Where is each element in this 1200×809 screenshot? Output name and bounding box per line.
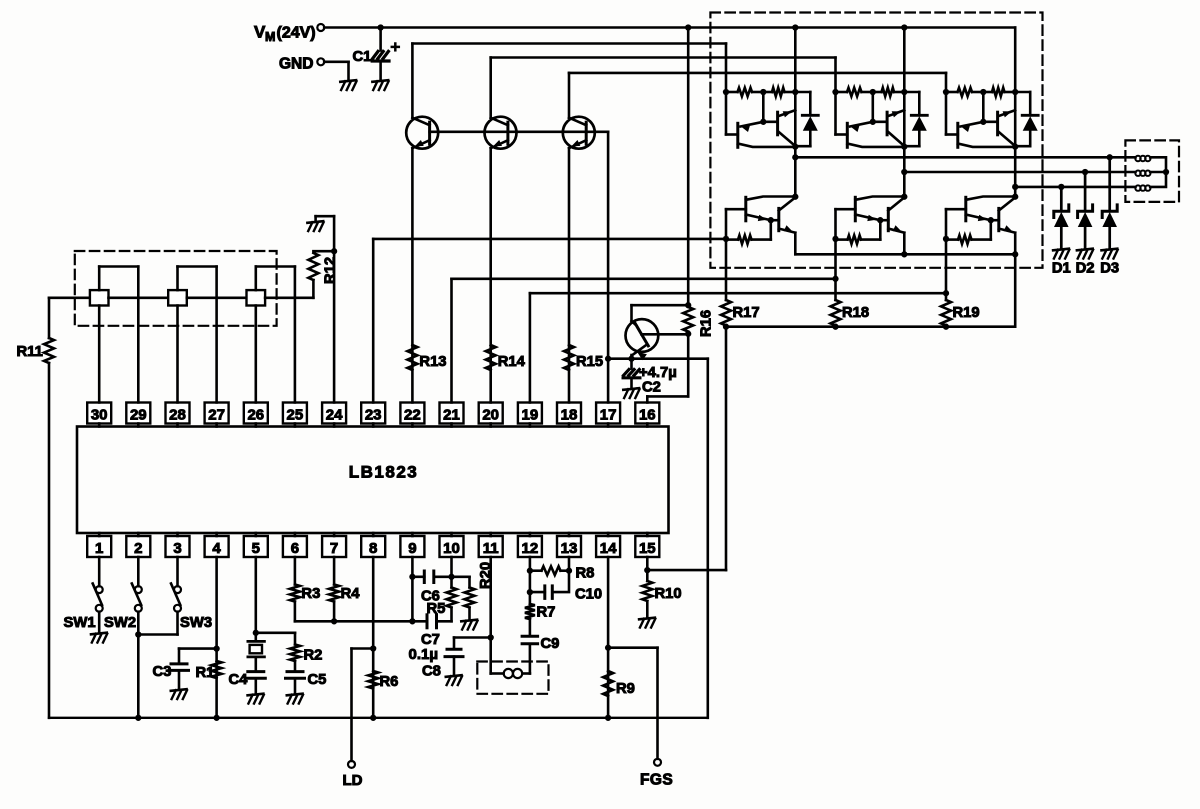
svg-text:C10: C10 — [575, 587, 602, 603]
svg-text:R12: R12 — [323, 257, 339, 284]
svg-text:10: 10 — [443, 540, 460, 557]
svg-text:26: 26 — [247, 406, 264, 423]
svg-text:R11: R11 — [17, 344, 43, 360]
svg-text:13: 13 — [561, 540, 578, 557]
svg-text:5: 5 — [252, 540, 260, 557]
svg-text:R4: R4 — [341, 586, 361, 602]
svg-text:D2: D2 — [1076, 261, 1095, 277]
svg-text:R6: R6 — [380, 674, 399, 690]
svg-text:19: 19 — [522, 406, 539, 423]
svg-text:4: 4 — [212, 540, 221, 557]
svg-text:C1: C1 — [353, 49, 372, 65]
svg-text:12: 12 — [522, 540, 539, 557]
svg-text:R13: R13 — [419, 354, 446, 370]
svg-text:M: M — [265, 30, 275, 44]
svg-text:R2: R2 — [304, 648, 323, 664]
svg-text:25: 25 — [287, 406, 304, 423]
svg-text:20: 20 — [482, 406, 499, 423]
svg-text:(24V): (24V) — [277, 25, 316, 42]
svg-text:R19: R19 — [953, 305, 980, 321]
svg-text:GND: GND — [279, 56, 313, 73]
svg-text:R5: R5 — [427, 601, 446, 617]
svg-text:D3: D3 — [1100, 261, 1119, 277]
svg-text:R7: R7 — [537, 605, 556, 621]
svg-text:R14: R14 — [498, 354, 526, 370]
svg-text:R18: R18 — [842, 305, 869, 321]
svg-text:LB1823: LB1823 — [349, 463, 418, 482]
svg-text:27: 27 — [208, 406, 225, 423]
svg-text:3: 3 — [173, 540, 181, 557]
svg-text:R16: R16 — [699, 310, 715, 337]
svg-text:22: 22 — [404, 406, 421, 423]
svg-text:C4: C4 — [229, 672, 249, 688]
svg-text:24: 24 — [326, 406, 343, 423]
svg-text:C9: C9 — [541, 636, 560, 652]
svg-text:23: 23 — [365, 406, 382, 423]
svg-text:0.1µ: 0.1µ — [409, 646, 439, 663]
svg-text:SW2: SW2 — [104, 615, 136, 631]
svg-text:30: 30 — [91, 406, 108, 423]
svg-text:1: 1 — [95, 540, 103, 557]
svg-text:2: 2 — [134, 540, 142, 557]
svg-text:C3: C3 — [153, 664, 172, 680]
svg-text:R8: R8 — [576, 566, 595, 582]
svg-text:R1: R1 — [196, 665, 215, 681]
svg-text:16: 16 — [639, 406, 656, 423]
svg-text:C5: C5 — [308, 672, 327, 688]
svg-text:14: 14 — [600, 540, 617, 557]
svg-text:SW1: SW1 — [64, 615, 96, 631]
svg-text:8: 8 — [369, 540, 377, 557]
svg-text:R9: R9 — [616, 681, 635, 697]
svg-text:SW3: SW3 — [180, 615, 212, 631]
svg-text:21: 21 — [443, 406, 460, 423]
svg-text:11: 11 — [483, 540, 499, 557]
svg-text:15: 15 — [639, 540, 656, 557]
svg-text:C8: C8 — [422, 664, 441, 680]
svg-text:9: 9 — [408, 540, 416, 557]
svg-text:FGS: FGS — [640, 772, 673, 789]
svg-text:D1: D1 — [1052, 261, 1071, 277]
svg-text:R17: R17 — [733, 305, 760, 321]
svg-text:17: 17 — [600, 406, 617, 423]
svg-text:R3: R3 — [301, 586, 320, 602]
svg-text:6: 6 — [291, 540, 299, 557]
svg-text:29: 29 — [130, 406, 147, 423]
svg-text:18: 18 — [561, 406, 578, 423]
svg-text:R15: R15 — [576, 354, 603, 370]
svg-text:C2: C2 — [642, 380, 661, 396]
svg-text:28: 28 — [169, 406, 186, 423]
svg-text:LD: LD — [343, 772, 363, 789]
svg-text:7: 7 — [330, 540, 338, 557]
svg-text:R10: R10 — [655, 586, 682, 602]
